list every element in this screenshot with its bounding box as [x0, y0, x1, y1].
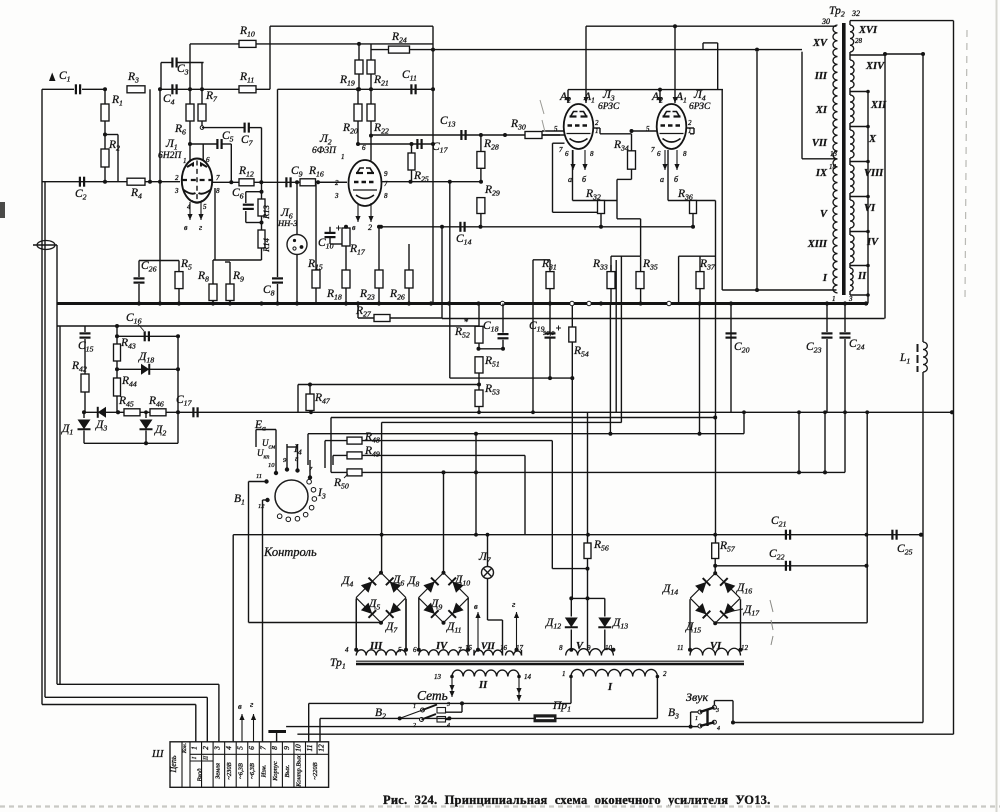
svg-text:C26: C26	[141, 260, 157, 274]
wire C6 bracket rows	[246, 191, 262, 193]
svg-text:XI: XI	[815, 105, 828, 116]
capacitor C5	[216, 139, 218, 149]
transformer Tr1 winding III	[356, 650, 406, 656]
resistor R16	[300, 179, 316, 186]
svg-text:10: 10	[605, 644, 613, 652]
wire R37 column x700	[699, 256, 701, 271]
tube L1 6N2P	[182, 159, 212, 203]
wire C18 column x503	[502, 304, 504, 333]
svg-text:Сеть: Сеть	[417, 688, 448, 703]
svg-text:R24: R24	[391, 31, 407, 45]
wire L4 heater arrows	[664, 150, 666, 170]
svg-text:г: г	[199, 223, 202, 232]
svg-text:R19: R19	[339, 74, 355, 88]
svg-text:C11: C11	[402, 69, 417, 83]
svg-text:R3: R3	[127, 71, 139, 85]
capacitor C21	[785, 530, 787, 540]
svg-text:6: 6	[657, 150, 661, 158]
wire cathode x215	[214, 188, 216, 260]
wire C7 right drop x261	[261, 128, 263, 199]
svg-text:Д12: Д12	[545, 617, 561, 631]
arrow net14	[518, 677, 520, 702]
svg-text:Корпус: Корпус	[272, 761, 279, 782]
capacitor C4	[171, 84, 173, 94]
svg-text:г: г	[512, 599, 516, 609]
transformer Tr1 winding VII	[474, 650, 503, 655]
svg-text:Л4: Л4	[693, 89, 706, 103]
switch B1 rotary	[275, 480, 308, 513]
capacitor C1	[42, 88, 74, 90]
wire R36 column x693	[692, 214, 694, 227]
resistor R13	[258, 199, 265, 216]
resistor R45	[124, 409, 140, 416]
wire anode drop x449	[449, 182, 451, 378]
svg-text:I3: I3	[317, 487, 326, 501]
resistor R49	[347, 452, 362, 459]
wire D12 column x571	[570, 598, 572, 616]
neon lamp L6	[287, 235, 307, 255]
svg-text:Звук: Звук	[686, 690, 708, 704]
svg-text:11: 11	[677, 644, 683, 652]
resistor R1	[101, 104, 109, 121]
diode D12	[565, 618, 578, 628]
wire control drop x476	[475, 434, 477, 535]
wire x616 drop	[615, 260, 617, 412]
svg-text:C9: C9	[291, 165, 303, 179]
wire bridge2 feet	[418, 598, 420, 650]
capacitor C19 electrolytic	[545, 332, 556, 334]
svg-text:XIV: XIV	[865, 61, 885, 72]
svg-text:R32: R32	[585, 188, 601, 202]
svg-text:V: V	[820, 209, 828, 220]
capacitor C25	[891, 530, 893, 540]
svg-text:Uсм: Uсм	[262, 438, 275, 451]
wire R47 column x310	[309, 385, 311, 395]
wire x825 link	[824, 412, 826, 472]
capacitor C13	[460, 130, 462, 140]
svg-text:I: I	[822, 273, 828, 284]
fuse Pr1	[534, 715, 556, 722]
svg-text:Контроль: Контроль	[263, 545, 317, 559]
wire R47 R53 row y384	[298, 384, 479, 386]
svg-text:R34: R34	[613, 139, 629, 153]
svg-text:C25: C25	[897, 543, 913, 557]
wire x699 drop	[699, 304, 701, 434]
resistor R29	[477, 198, 485, 214]
diode D18	[141, 364, 149, 375]
svg-text:3: 3	[848, 295, 853, 303]
wire screen rail y89 left	[161, 88, 270, 90]
arrow v	[477, 612, 479, 650]
svg-text:3: 3	[334, 192, 339, 200]
svg-text:1: 1	[341, 153, 345, 161]
svg-text:Контр.Вых: Контр.Вых	[295, 755, 302, 787]
wire R34 bottom path x621	[620, 256, 622, 422]
wire bridge1 left x356	[355, 599, 357, 650]
svg-text:В2: В2	[375, 707, 386, 721]
svg-text:6Ф3П: 6Ф3П	[312, 146, 337, 156]
wire C13 line y135	[371, 134, 560, 136]
wire L-bend2 y697	[45, 696, 207, 698]
svg-text:Д15: Д15	[685, 621, 701, 635]
svg-text:R1: R1	[111, 94, 123, 108]
svg-text:2: 2	[201, 746, 210, 750]
resistor R42	[81, 374, 89, 392]
wire R21 R22 column x371	[370, 44, 372, 60]
svg-text:в: в	[238, 701, 242, 711]
svg-text:7: 7	[651, 146, 655, 154]
wire control out line y734	[297, 733, 953, 735]
wire bias output y622	[249, 622, 381, 624]
wire R49 drop x525	[524, 455, 526, 534]
svg-text:R51: R51	[484, 355, 500, 369]
wire top rail drop x718	[717, 43, 719, 90]
svg-text:9: 9	[282, 746, 291, 750]
wire left input vertical x42	[41, 89, 43, 704]
transformer Tr1 winding IV	[419, 650, 468, 656]
wire table pin12 column x323	[319, 718, 321, 741]
capacitor C11	[410, 84, 412, 94]
svg-text:R14: R14	[261, 237, 271, 252]
resistor R31	[546, 272, 554, 289]
chassis ground	[268, 730, 286, 733]
wire long vertical x433	[432, 26, 434, 303]
svg-text:R23: R23	[359, 288, 375, 302]
wire L3 grid drop x552	[552, 143, 554, 212]
capacitor C26	[134, 277, 145, 279]
svg-text:Д2: Д2	[154, 424, 166, 438]
svg-text:18: 18	[829, 163, 837, 171]
wire C5 right drop x231	[230, 144, 232, 182]
scan artifacts	[0, 202, 5, 218]
wire R9 column x230	[229, 262, 231, 284]
svg-text:R12: R12	[238, 165, 254, 179]
wire C19 R31 column x550	[549, 260, 551, 272]
svg-text:II: II	[478, 680, 488, 691]
capacitor C2	[79, 177, 81, 187]
wire grid return y212	[553, 211, 601, 213]
svg-text:R46: R46	[148, 395, 164, 409]
wire R10 rail y44	[190, 43, 433, 45]
wire L4 pin2 corner	[686, 127, 694, 129]
resistor R36	[690, 201, 697, 214]
svg-text:C16: C16	[126, 312, 142, 326]
switch B1 leads	[275, 447, 277, 473]
svg-text:XII: XII	[870, 100, 887, 111]
wire top jog y43	[703, 42, 718, 44]
svg-text:R27: R27	[355, 305, 372, 319]
svg-text:Л3: Л3	[602, 89, 615, 103]
resistor R12	[239, 179, 254, 186]
svg-text:R25: R25	[413, 170, 429, 184]
diode D13	[598, 618, 611, 628]
svg-text:12: 12	[741, 644, 749, 652]
svg-text:6: 6	[206, 156, 210, 164]
wire C24 column x845	[844, 304, 846, 333]
transformer Tr1 winding I	[571, 669, 657, 676]
wire R33 R35 bracket	[611, 255, 641, 257]
svg-text:Д6: Д6	[392, 574, 404, 588]
resistor R18	[342, 270, 350, 288]
svg-text:8: 8	[590, 150, 594, 158]
svg-text:2: 2	[175, 174, 179, 182]
wire R31 drop x533	[532, 260, 534, 413]
svg-text:1: 1	[695, 716, 698, 722]
arrow heater v	[241, 714, 243, 742]
resistor R56	[584, 543, 591, 559]
wire L3 pin2 corner x600	[599, 128, 601, 134]
svg-text:7: 7	[384, 180, 388, 188]
wire bias feed x248	[248, 482, 250, 623]
capacitor C22	[785, 561, 787, 571]
arrow net13	[451, 677, 453, 698]
svg-text:Д8: Д8	[407, 575, 419, 589]
svg-text:V: V	[576, 641, 584, 652]
switch B1 contacts	[274, 471, 278, 475]
wire R3 right corner x150	[149, 89, 151, 181]
wire L3 pins bracket y134	[600, 133, 632, 135]
svg-text:C14: C14	[456, 233, 472, 247]
wire thin rail y326 left	[57, 325, 479, 327]
svg-text:~220В: ~220В	[312, 762, 319, 779]
capacitor C24	[840, 332, 851, 334]
wire signal line y182 right	[381, 181, 481, 183]
svg-text:Д16: Д16	[736, 582, 752, 596]
resistor R2	[101, 149, 109, 167]
resistor R52	[475, 326, 483, 343]
resistor R22	[367, 104, 375, 121]
wire R34 column x631	[631, 134, 633, 151]
rectifier bridge D8-D11	[419, 573, 444, 598]
wire D18 row y369	[117, 368, 178, 370]
svg-text:6РЗС: 6РЗС	[689, 102, 711, 112]
svg-text:C2: C2	[75, 188, 87, 202]
wire Tr2 taps rail x868	[867, 92, 869, 304]
svg-text:в: в	[474, 601, 478, 611]
wire measure rail y412	[84, 411, 954, 413]
wire L3 grid bracket y143	[553, 142, 565, 144]
svg-text:C24: C24	[849, 338, 865, 352]
svg-text:13: 13	[830, 150, 838, 158]
wire R6 column x190	[189, 44, 191, 104]
wire lamp L7 column x487	[487, 535, 489, 567]
svg-text:C18: C18	[483, 320, 499, 334]
svg-text:R33: R33	[592, 258, 608, 272]
svg-text:Кон.: Кон.	[182, 743, 188, 754]
resistor R32	[598, 201, 605, 214]
wire neon column x297	[296, 182, 298, 234]
wire B1 to pin12	[263, 499, 268, 501]
svg-text:6: 6	[565, 150, 569, 158]
wire Tr2 bottom feed x757	[756, 52, 758, 290]
svg-text:R17: R17	[349, 243, 366, 257]
svg-text:1: 1	[595, 127, 599, 135]
wire L1 pin6 lead	[202, 144, 204, 161]
svg-text:4: 4	[447, 722, 450, 729]
svg-text:R15: R15	[307, 258, 323, 272]
wire diode loop bottom	[84, 442, 178, 444]
wire R52 C18 row y349	[479, 348, 504, 350]
svg-text:R16: R16	[308, 165, 324, 179]
svg-text:III: III	[369, 641, 383, 652]
wire R27 right x442	[441, 227, 443, 318]
svg-text:50,0: 50,0	[543, 330, 555, 337]
svg-text:R37: R37	[699, 258, 716, 272]
transformer Tr1 winding V	[566, 649, 614, 656]
svg-text:Еа: Еа	[254, 419, 266, 433]
wire Tr2 sec bottom	[849, 291, 851, 295]
svg-text:10: 10	[293, 744, 302, 752]
svg-text:1: 1	[562, 670, 566, 678]
svg-text:R56: R56	[593, 539, 609, 553]
wire signal line y182 mid	[213, 181, 348, 183]
svg-text:C13: C13	[440, 115, 456, 129]
wire table pin4 column x233	[232, 535, 234, 742]
svg-text:C17: C17	[176, 394, 193, 408]
wire Tr2 bottom-left y290	[722, 289, 836, 291]
svg-text:6: 6	[362, 144, 366, 152]
svg-text:R13: R13	[261, 205, 271, 220]
wire D12 D13 feed y598	[571, 597, 605, 599]
wire Tr2 sec taps	[850, 91, 868, 93]
svg-text:Д17: Д17	[743, 604, 760, 618]
wire left vertical x60	[59, 326, 61, 684]
svg-text:3: 3	[715, 708, 719, 714]
resistor R33	[607, 272, 615, 289]
svg-text:30: 30	[821, 17, 830, 26]
wire R1 R2 column	[104, 89, 106, 104]
heater arrows L1	[189, 202, 191, 220]
svg-text:C3: C3	[177, 63, 189, 77]
resistor R4	[127, 178, 145, 185]
wire R49 left drop	[332, 455, 334, 465]
capacitor C18	[498, 333, 509, 335]
svg-text:А2: А2	[559, 91, 571, 105]
svg-text:32: 32	[851, 9, 860, 18]
wire L4 anode A1 x675	[674, 26, 676, 103]
svg-text:C23: C23	[806, 341, 822, 355]
wire Tr2 tap y159	[802, 158, 837, 160]
wire x723 column	[721, 90, 723, 290]
heater arrows L2	[357, 203, 359, 222]
wire table pin11 column x312	[308, 703, 310, 741]
svg-text:~6,3В: ~6,3В	[238, 763, 245, 779]
capacitor C23	[822, 332, 833, 334]
svg-text:C7: C7	[241, 134, 254, 148]
lamp L7	[482, 567, 494, 579]
wire left shield vertical x57	[56, 245, 58, 684]
svg-text:а: а	[660, 175, 664, 184]
svg-text:R6: R6	[174, 123, 186, 137]
wire L3 cathode jog	[572, 150, 574, 201]
svg-text:R18: R18	[326, 288, 342, 302]
svg-text:1: 1	[189, 746, 198, 750]
tube L3 6P3S	[564, 104, 594, 149]
svg-text:R7: R7	[205, 90, 218, 104]
svg-text:I4: I4	[293, 443, 302, 457]
svg-text:R54: R54	[573, 345, 589, 359]
resistor R14	[258, 230, 265, 248]
wire B2 right drop x462	[461, 703, 463, 712]
wire L3 anode A1 x586	[585, 26, 587, 103]
wire R32 column x601	[600, 214, 602, 227]
resistor R57	[712, 543, 719, 559]
svg-text:8: 8	[216, 187, 220, 195]
svg-text:Л1: Л1	[165, 138, 178, 152]
wire R20 column x358	[357, 89, 359, 104]
connector input cells	[190, 760, 213, 762]
wire speaker line y727	[286, 726, 690, 728]
wire R52 R51 R53 column x479	[478, 304, 480, 327]
wire Tr2 tap feed x802	[801, 52, 803, 159]
capacitor C16	[144, 331, 146, 341]
resistor R35	[636, 272, 644, 289]
svg-text:R36: R36	[677, 188, 693, 202]
svg-text:IV: IV	[866, 237, 879, 248]
svg-text:R29: R29	[484, 184, 500, 198]
svg-text:R49: R49	[364, 445, 380, 459]
svg-text:VII: VII	[812, 138, 828, 149]
svg-text:VIII: VIII	[864, 168, 884, 179]
svg-text:R57: R57	[719, 540, 736, 554]
svg-text:R44: R44	[121, 375, 137, 389]
svg-text:в: в	[184, 223, 188, 232]
svg-text:X: X	[868, 134, 877, 145]
svg-text:10: 10	[268, 462, 275, 469]
wire C15 R42 column x85	[84, 326, 86, 332]
wire screen rail y89 mid	[278, 88, 434, 90]
wire bridge1 right x406	[405, 599, 407, 650]
wire L4 anode A2 x660	[659, 90, 661, 103]
svg-text:8: 8	[384, 192, 388, 200]
wire L1 rail x923	[922, 54, 924, 342]
wire C17 line y144	[358, 143, 433, 145]
wire R7 column x202	[201, 63, 203, 105]
svg-text:Тр1: Тр1	[330, 657, 346, 671]
svg-text:C17: C17	[432, 141, 449, 155]
wire R56 bottom link y569	[552, 568, 587, 570]
wire mains fuse line y718	[320, 717, 657, 719]
svg-text:8: 8	[683, 150, 687, 158]
arrow g	[516, 612, 518, 650]
wire C23 column x827	[826, 304, 828, 333]
svg-text:R35: R35	[642, 258, 658, 272]
wire Tr1 pin1 drop x571	[570, 677, 572, 704]
svg-text:7: 7	[458, 646, 462, 654]
wire anode rail y89 right	[568, 89, 723, 91]
svg-text:C5: C5	[222, 130, 234, 144]
wire Tr2 top-right tap y54	[885, 53, 923, 55]
wire x799 link	[798, 412, 800, 472]
svg-text:R43: R43	[120, 337, 136, 351]
svg-text:6РЗС: 6РЗС	[598, 102, 620, 112]
wire L3 heater x573	[572, 150, 574, 170]
wire R27 left x358	[357, 304, 359, 319]
svg-text:Д7: Д7	[385, 621, 398, 635]
wire top B+ rail y26	[270, 25, 433, 27]
svg-text:R47: R47	[314, 392, 331, 406]
wire output line y535	[233, 534, 923, 536]
wire bridge1 feet	[355, 599, 357, 650]
svg-text:6Н2П: 6Н2П	[158, 151, 182, 161]
tube L4 6P3S	[657, 104, 687, 149]
transformer Tr1 core	[356, 660, 744, 662]
capacitor C15	[80, 332, 91, 334]
resistor R11	[239, 86, 256, 93]
svg-text:IV: IV	[435, 641, 448, 652]
wire Tr2 rail x885	[884, 54, 886, 319]
svg-text:6: 6	[413, 646, 417, 654]
